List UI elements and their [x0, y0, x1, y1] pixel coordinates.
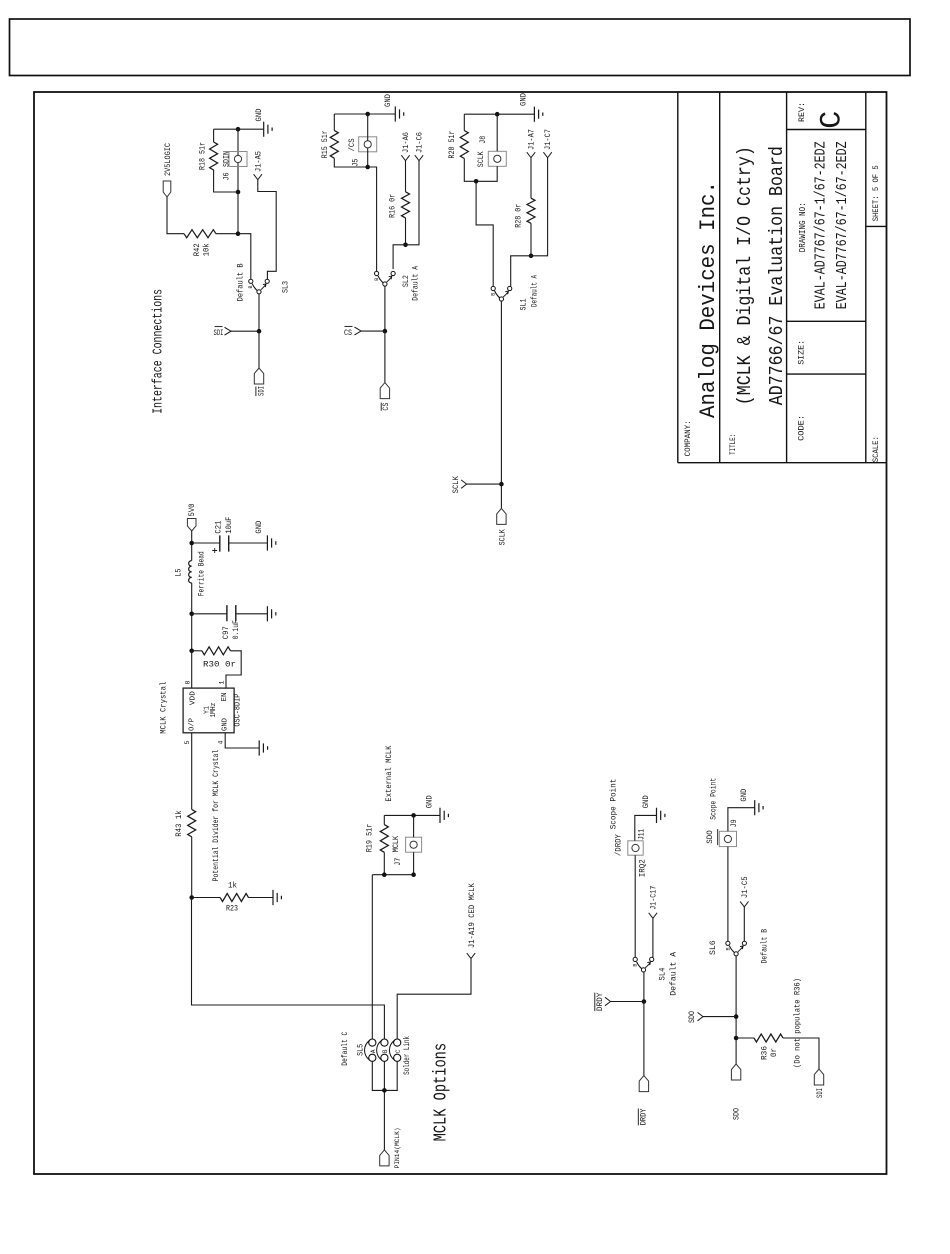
svg-text:DRAWING NO:: DRAWING NO: — [798, 202, 808, 252]
svg-text:SDI: SDI — [256, 386, 266, 396]
svg-text:5V0: 5V0 — [187, 504, 197, 517]
svg-text:EVAL-AD7767/67-1/67-2EDZ: EVAL-AD7767/67-1/67-2EDZ — [812, 141, 829, 309]
svg-text:B: B — [374, 278, 380, 281]
svg-text:C21: C21 — [213, 521, 223, 534]
svg-text:0r: 0r — [769, 1048, 779, 1057]
svg-text:R16 0r: R16 0r — [388, 194, 398, 218]
svg-text:GND: GND — [425, 795, 435, 808]
svg-text:B: B — [491, 293, 497, 296]
svg-text:SDI: SDI — [214, 329, 224, 338]
svg-text:SDO: SDO — [687, 1011, 697, 1023]
svg-text:External MCLK: External MCLK — [384, 745, 394, 802]
svg-text:J6: J6 — [222, 173, 232, 181]
svg-text:R23: R23 — [226, 905, 238, 914]
svg-text:SL2: SL2 — [401, 275, 411, 287]
svg-text:/CS: /CS — [347, 138, 357, 151]
svg-text:10uF: 10uF — [224, 517, 234, 534]
svg-text:A: A — [370, 1049, 377, 1053]
svg-text:J7: J7 — [393, 858, 403, 866]
svg-text:J1-A5: J1-A5 — [253, 151, 263, 172]
svg-text:J1-C17: J1-C17 — [649, 886, 659, 910]
svg-text:SCLK: SCLK — [451, 475, 461, 493]
svg-text:4: 4 — [218, 741, 225, 745]
svg-text:SIZE:: SIZE: — [797, 340, 807, 365]
svg-text:DRDY: DRDY — [639, 1109, 649, 1126]
svg-text:GND: GND — [254, 521, 264, 534]
svg-text:B: B — [633, 964, 639, 967]
svg-text:SCLK: SCLK — [498, 528, 508, 545]
svg-text:2V5LOGIC: 2V5LOGIC — [163, 143, 173, 176]
svg-text:10k: 10k — [202, 243, 212, 256]
svg-text:CS: CS — [344, 329, 352, 338]
svg-text:(MCLK & Digital I/O Cctry): (MCLK & Digital I/O Cctry) — [734, 146, 756, 405]
svg-text:B: B — [725, 947, 731, 950]
svg-text:J11: J11 — [637, 829, 647, 840]
svg-text:Default A: Default A — [411, 265, 421, 301]
svg-text:R18 51r: R18 51r — [198, 142, 208, 170]
svg-text:OSC-8DIP: OSC-8DIP — [233, 694, 243, 727]
svg-text:Solder Link: Solder Link — [402, 1036, 412, 1075]
svg-text:B: B — [248, 285, 254, 288]
svg-text:VDD: VDD — [190, 691, 198, 705]
svg-text:5: 5 — [184, 741, 191, 745]
svg-text:SL6: SL6 — [708, 940, 718, 955]
svg-text:MCLK: MCLK — [391, 835, 401, 852]
svg-text:Scope Point: Scope Point — [609, 779, 619, 830]
svg-text:GND: GND — [739, 789, 749, 802]
svg-text:J1-A6: J1-A6 — [401, 132, 411, 153]
svg-text:TITLE:: TITLE: — [728, 434, 738, 455]
svg-text:EN: EN — [221, 693, 229, 702]
svg-text:8: 8 — [185, 681, 192, 685]
svg-text:GND: GND — [254, 109, 264, 122]
svg-text:C: C — [815, 111, 849, 129]
svg-text:GND: GND — [222, 718, 230, 731]
svg-text:Default B: Default B — [236, 263, 246, 301]
svg-text:R30 0r: R30 0r — [203, 661, 236, 670]
svg-text:GND: GND — [519, 93, 529, 106]
svg-text:SDIN: SDIN — [222, 151, 232, 167]
svg-text:O/P: O/P — [189, 718, 197, 731]
svg-text:DRDY: DRDY — [595, 993, 605, 1012]
svg-text:J9: J9 — [729, 819, 739, 827]
svg-text:0.1uF: 0.1uF — [231, 620, 241, 639]
svg-text:R36: R36 — [759, 1046, 769, 1060]
svg-text:Potential Divider for MCLK Cry: Potential Divider for MCLK Crystal — [212, 750, 221, 882]
svg-text:EVAL-AD7767/67-1/67-2EDZ: EVAL-AD7767/67-1/67-2EDZ — [834, 141, 851, 309]
svg-text:Default A: Default A — [669, 951, 679, 996]
svg-text:J1-C6: J1-C6 — [415, 132, 425, 153]
svg-text:B: B — [382, 1049, 389, 1053]
svg-text:Default B: Default B — [760, 929, 770, 964]
svg-text:COMPANY:: COMPANY: — [683, 420, 693, 456]
svg-text:1MHz: 1MHz — [210, 703, 218, 718]
svg-text:Scope Point: Scope Point — [709, 778, 719, 820]
svg-text:(Do not populate R36): (Do not populate R36) — [794, 978, 803, 1068]
svg-text:L5: L5 — [173, 569, 183, 577]
svg-text:REV:: REV: — [797, 102, 807, 122]
svg-text:J1-C5: J1-C5 — [740, 876, 750, 898]
svg-text:J1-A7: J1-A7 — [527, 129, 537, 150]
svg-text:SL4: SL4 — [657, 968, 667, 981]
svg-text:R19 51r: R19 51r — [365, 824, 375, 853]
svg-text:J1-C7: J1-C7 — [543, 129, 553, 150]
svg-text:C: C — [395, 1049, 402, 1053]
svg-text:1k: 1k — [228, 882, 237, 891]
svg-text:R15 51r: R15 51r — [320, 130, 330, 158]
svg-text:R43 1k: R43 1k — [174, 810, 184, 837]
svg-text:SDO: SDO — [732, 1108, 742, 1120]
svg-text:GND: GND — [383, 94, 393, 107]
svg-text:MCLK Crystal: MCLK Crystal — [159, 682, 169, 734]
svg-text:J8: J8 — [478, 136, 488, 144]
svg-text:PIN14(MCLK): PIN14(MCLK) — [394, 1127, 401, 1168]
svg-text:CS: CS — [381, 403, 391, 411]
svg-text:R28 0r: R28 0r — [514, 204, 524, 228]
svg-text:CODE:: CODE: — [797, 415, 807, 441]
svg-text:SL5: SL5 — [355, 1044, 365, 1056]
svg-text:AD7766/67 Evaluation Board: AD7766/67 Evaluation Board — [766, 146, 788, 405]
svg-text:1: 1 — [219, 681, 226, 685]
svg-text:R42: R42 — [192, 243, 202, 256]
svg-text:IRQ2: IRQ2 — [638, 859, 648, 877]
svg-text:J1-A19 CED MCLK: J1-A19 CED MCLK — [467, 882, 477, 948]
svg-text:R20 51r: R20 51r — [447, 131, 457, 159]
svg-text:SCLK: SCLK — [476, 151, 486, 168]
svg-text:Default C: Default C — [340, 1032, 350, 1066]
svg-text:SL3: SL3 — [281, 281, 291, 293]
svg-text:Interface Connections: Interface Connections — [151, 289, 167, 414]
svg-text:GND: GND — [641, 795, 651, 808]
svg-text:SDO: SDO — [705, 830, 715, 843]
svg-text:SL1: SL1 — [518, 299, 528, 311]
svg-text:Default A: Default A — [530, 274, 540, 307]
svg-text:SDI: SDI — [815, 1088, 825, 1098]
svg-text:MCLK Options: MCLK Options — [432, 1043, 452, 1142]
svg-text:J5: J5 — [351, 159, 361, 167]
svg-text:C97: C97 — [221, 626, 231, 639]
svg-text:/DRDY: /DRDY — [614, 834, 624, 856]
svg-text:SCALE:: SCALE: — [871, 436, 881, 462]
svg-text:Ferrite Bead: Ferrite Bead — [197, 551, 207, 596]
svg-text:Analog Devices Inc.: Analog Devices Inc. — [695, 181, 721, 418]
svg-text:SHEET: 5 OF 5: SHEET: 5 OF 5 — [871, 165, 881, 221]
